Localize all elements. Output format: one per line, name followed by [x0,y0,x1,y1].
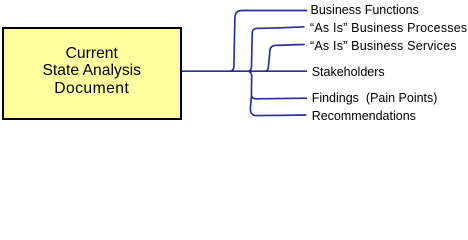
wire: branch to Business Functions [230,11,307,72]
label: "As Is" Business Processes [310,21,467,35]
wire: branch down to Recommendations [250,96,306,116]
label: Findings (Pain Points) [312,91,438,105]
label: Business Functions [311,3,419,17]
label: Stakeholders [312,65,385,79]
wire: branch to "As Is" Business Services [264,44,304,71]
wire: branch to "As Is" Business Processes [248,27,305,71]
label: Recommendations [312,109,416,123]
wire: branch down to Findings (Pain Points) [248,71,307,99]
label: "As Is" Business Services [310,39,457,53]
box: Current State Analysis Document [2,27,182,120]
wire: trunk from box to Stakeholders branch [182,70,308,72]
